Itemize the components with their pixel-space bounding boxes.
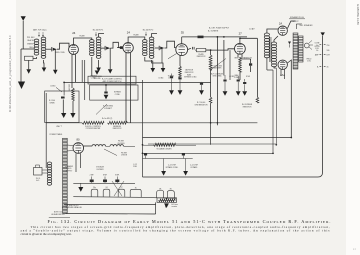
grid cap dot V2 (117, 46, 123, 49)
label F3 (115, 174, 120, 176)
svg-text:1st A.F.: 1st A.F. (249, 28, 255, 31)
label cond row2 (184, 75, 197, 78)
wire choke gap (106, 145, 111, 147)
svg-text:RESISTOR: RESISTOR (197, 56, 206, 58)
label wire colors (27, 39, 34, 49)
resistor R screen (209, 55, 212, 70)
svg-text:24: 24 (72, 31, 76, 35)
capacitor row2 (178, 77, 181, 90)
wire ct down (165, 205, 167, 208)
resistor R2 vertical (72, 88, 75, 101)
tube V4 type 27 (235, 43, 246, 54)
svg-text:BYPASS: BYPASS (191, 166, 199, 169)
pointer vol (96, 104, 107, 115)
label plate lead 1 (79, 35, 85, 38)
capacitor row1 (170, 74, 173, 91)
choke B (110, 145, 124, 147)
svg-text:OHM RESISTOR: OHM RESISTOR (194, 104, 208, 106)
ground T1 box (26, 69, 31, 73)
wire line bus left (46, 122, 82, 124)
wire antenna to T1 (21, 48, 34, 50)
svg-text:GREEN: GREEN (27, 44, 34, 46)
svg-text:No.1 SPEAKER: No.1 SPEAKER (300, 24, 313, 27)
svg-text:GRID BIAS RESISTOR: GRID BIAS RESISTOR (234, 57, 252, 60)
label V3 35 (181, 30, 185, 34)
wire vert 217 (216, 37, 218, 125)
label loop6 (170, 189, 172, 191)
wire B feed vertical (143, 36, 323, 177)
wire screen bus 1 (64, 81, 211, 83)
heater loop 1 (91, 189, 98, 197)
capacitor C1 grid (52, 47, 66, 54)
label loop5 (159, 187, 162, 190)
svg-text:80: 80 (77, 138, 80, 142)
tube V3 detector (176, 44, 188, 56)
tick B2 (315, 50, 330, 56)
label loop2 (106, 187, 108, 189)
caption (21, 219, 331, 236)
svg-text:POWER TRANS.: POWER TRANS. (49, 133, 63, 136)
center tap box (157, 198, 177, 203)
wire shield down (62, 100, 64, 114)
power transformer secondary (63, 138, 68, 213)
svg-text:LINE 'T': LINE 'T' (56, 126, 63, 128)
svg-text:SUPPLY: SUPPLY (66, 170, 73, 172)
label mid block (96, 166, 105, 171)
ground C2 (108, 69, 113, 73)
svg-text:COND.: COND. (115, 94, 121, 96)
svg-text:GRID LEAK: GRID LEAK (212, 75, 222, 78)
svg-text:No.24 R.F.2: No.24 R.F.2 (143, 29, 154, 31)
transformer T3 primary (143, 40, 148, 56)
svg-text:OHMS: OHMS (49, 102, 55, 104)
svg-text:SPEAKER PLUG: SPEAKER PLUG (290, 16, 304, 19)
heater loop 4 (130, 189, 141, 197)
svg-text:CONDENSER: CONDENSER (211, 68, 223, 70)
svg-text:B+: B+ (316, 50, 318, 52)
svg-text:circuit is given in the accomp: circuit is given in the accompanying tex… (21, 232, 72, 236)
resistor on 257 (256, 97, 259, 103)
wire L3 (143, 70, 274, 153)
grid symbols between tubes (288, 42, 291, 48)
svg-text:HUM ADJUSTER: HUM ADJUSTER (51, 213, 65, 216)
wire V3 plate top (181, 37, 183, 44)
label box volume switch (88, 76, 136, 84)
svg-text:COIL SHIELD: COIL SHIELD (92, 76, 103, 78)
wire V3 grid left (168, 54, 177, 59)
wire drop g2 (185, 159, 187, 172)
capacitor row5 (237, 76, 240, 91)
svg-text:24: 24 (127, 30, 131, 34)
svg-text:80: 80 (170, 189, 172, 191)
label tuning box (168, 75, 175, 79)
label bypass (114, 91, 122, 96)
wire rect out (76, 146, 92, 172)
wire vd wires (143, 144, 197, 146)
svg-text:NOTE: R-5: NOTE: R-5 (54, 211, 62, 213)
right margin vertical text (356, 4, 360, 25)
svg-text:A.C.: A.C. (36, 179, 40, 182)
wire T1 pri bottom (33, 57, 37, 59)
wire heater return (64, 202, 156, 214)
wire T2 pri bottom (91, 57, 93, 76)
wire V3 cathode (179, 55, 181, 66)
wire vert 224 (223, 40, 225, 76)
wire ground lead (20, 49, 22, 82)
svg-text:VOLTAGE DIVIDER: VOLTAGE DIVIDER (156, 147, 172, 150)
speaker output coil (293, 33, 298, 69)
label PRI (27, 37, 36, 39)
wire V4 plate top (240, 38, 258, 43)
second box (90, 85, 138, 100)
wire V1 plate top (74, 38, 92, 45)
label divider (113, 126, 122, 130)
wire L2 (148, 68, 276, 144)
tube V5 output (278, 26, 287, 35)
svg-text:CHOKE: CHOKE (121, 155, 128, 157)
ground P2 (183, 171, 188, 176)
wire T4 pri top (267, 29, 278, 70)
arrow B feed (321, 32, 325, 36)
svg-text:COND.: COND. (158, 77, 164, 79)
wire plug to pri (42, 170, 48, 173)
svg-text:2 MF.: 2 MF. (90, 174, 95, 176)
power transformer primary (47, 162, 51, 185)
label V2 24 (127, 30, 131, 34)
wire T2 sec top lead (99, 34, 104, 38)
svg-text:resistor: resistor (172, 205, 178, 208)
svg-text:CONTACT: CONTACT (104, 107, 112, 110)
label loop4 (135, 188, 137, 190)
label loop3 (121, 187, 123, 189)
svg-text:OUTPUT: OUTPUT (292, 21, 299, 23)
svg-text:27: 27 (239, 32, 243, 36)
svg-text:35: 35 (181, 30, 185, 34)
label tuning box 2 (90, 75, 97, 79)
ground main (18, 82, 25, 90)
svg-text:PLATE: PLATE (79, 35, 85, 38)
transformer T3 secondary (149, 37, 154, 58)
label grid leak (234, 57, 252, 60)
ground row4 (223, 91, 228, 96)
label c14 (190, 165, 199, 169)
svg-text:250: 250 (327, 45, 330, 47)
wire V3 plate out (188, 48, 191, 49)
label plate lead 2 (133, 34, 139, 37)
ground row5 (236, 91, 241, 96)
tube V7 rectifier 80 (73, 143, 84, 154)
svg-text:M:\92-Mike\Manuals_web_in_prog: M:\92-Mike\Manuals_web_in_progress\EZ_ba… (8, 35, 12, 112)
label V5 2A (279, 21, 282, 25)
svg-text:POTENTIOMETER: POTENTIOMETER (86, 128, 101, 130)
wire B+ bus top (182, 36, 247, 39)
label note2 (62, 206, 82, 209)
label af stage (249, 28, 255, 31)
wire heater bus (73, 197, 176, 199)
wire to V2 grid (110, 42, 120, 48)
svg-text:45: 45 (327, 67, 329, 69)
ground tuning (53, 70, 58, 74)
wire note underline (49, 216, 70, 218)
label cond pointer (50, 85, 62, 92)
tick B3 (317, 67, 329, 69)
svg-text:ANT. R.F.1 A-C: ANT. R.F.1 A-C (33, 29, 47, 32)
wire C1 to V1 (57, 43, 69, 49)
label ptrans (49, 133, 63, 136)
wire C2 drop (109, 48, 111, 69)
svg-text:180: 180 (327, 50, 330, 52)
wire T1 box down (28, 60, 30, 69)
resistor voltage divider (154, 143, 176, 146)
label loop1 (93, 187, 96, 189)
left margin vertical text (8, 35, 12, 112)
svg-text:35: 35 (135, 188, 137, 190)
label speaker top (289, 16, 305, 19)
svg-text:R-4 to SW (7): R-4 to SW (7) (102, 117, 113, 120)
ground T1 sec (42, 68, 47, 72)
svg-text:BYPASS COND.: BYPASS COND. (184, 75, 197, 78)
ground row3 (199, 90, 204, 95)
wire left edge drop (45, 93, 47, 168)
label cond row (158, 77, 164, 79)
wire L1 (196, 137, 291, 139)
wire bottom bus (66, 213, 156, 216)
label vol conn (103, 106, 114, 110)
svg-text:GRID COND.: GRID COND. (55, 52, 66, 54)
ground coil shield (92, 71, 103, 81)
tick B1 (316, 45, 329, 47)
resistor cathode V3 (179, 66, 182, 78)
label R1 (49, 100, 55, 104)
tube V1 type 24 (69, 45, 79, 55)
transformer T2 secondary (96, 37, 101, 58)
svg-text:RESISTOR: RESISTOR (243, 106, 252, 108)
ground filter (78, 183, 83, 192)
wire T3 sec top lead (152, 34, 157, 38)
label af text bottom (234, 74, 240, 79)
speaker cone (304, 41, 313, 50)
wire vert 257 (256, 38, 258, 97)
svg-text:COND.: COND. (234, 77, 240, 79)
resistor volume control (82, 121, 104, 124)
label screen res (194, 102, 208, 106)
capacitor C2 bypass (101, 46, 110, 50)
capacitor row6 (243, 79, 246, 91)
transformer T1 primary (34, 39, 39, 55)
wire filter bus (73, 182, 135, 184)
label center tap (172, 204, 178, 208)
wire T3 sec bottom (152, 60, 163, 68)
svg-text:COIL: COIL (307, 61, 311, 63)
label F2 (103, 174, 108, 176)
wire vd line (143, 137, 197, 139)
corner mark (353, 249, 356, 251)
svg-text:BLACK: BLACK (27, 39, 33, 42)
label choke (117, 141, 125, 145)
label V1 24 (72, 31, 76, 35)
wire bus 158 (143, 158, 193, 160)
label V4 27 (239, 32, 243, 36)
svg-text:B+ DET. PLATE SUPPLY: B+ DET. PLATE SUPPLY (209, 26, 230, 29)
capacitor bypass mid (104, 85, 107, 94)
svg-text:FIG. 132. CIRCUIT DIAGRAM OF: FIG. 132. CIRCUIT DIAGRAM OF EARLY MODEL… (48, 219, 331, 224)
ground T3 pri (151, 68, 156, 72)
wire T1 sec to C1 (46, 48, 51, 50)
pointer loops (112, 181, 124, 196)
label line T (56, 126, 63, 128)
ground center tap (164, 203, 169, 208)
terminal box T1 (25, 56, 34, 60)
wire web left vertical (142, 80, 144, 177)
capacitor C4 det (193, 47, 195, 50)
choke A (92, 145, 106, 147)
label R4 sw (102, 117, 113, 120)
svg-text:500 OHM: 500 OHM (67, 84, 69, 92)
transformer T2 primary (90, 40, 95, 56)
label c13 (166, 165, 179, 169)
svg-text:CHOKES: CHOKES (117, 143, 125, 145)
transformer T4 primary (264, 33, 271, 62)
svg-text:B+: B+ (316, 45, 318, 47)
ground R2 (70, 113, 75, 118)
label 110v (36, 178, 41, 182)
svg-text:2A: 2A (279, 21, 282, 25)
label T3 (143, 29, 154, 36)
label c12 (133, 164, 138, 168)
svg-text:COND.: COND. (50, 85, 56, 87)
resistor grid leak V4 (239, 58, 242, 81)
label speaker field block (65, 165, 74, 172)
label 257 res (242, 104, 253, 108)
svg-text:PLATE: PLATE (133, 34, 139, 37)
svg-text:24: 24 (106, 187, 108, 189)
label output (292, 21, 299, 23)
ground bypass mid (104, 95, 109, 100)
label choke2 (121, 152, 128, 156)
capacitor C5 (240, 59, 252, 72)
wire V4 legs (238, 54, 242, 58)
label cond row3 (229, 76, 235, 78)
svg-text:8 MF.: 8 MF. (115, 174, 120, 176)
wire tuning cap drop (54, 49, 56, 70)
capacitor row3 (200, 82, 203, 90)
svg-text:B+ SCREEN: B+ SCREEN (208, 30, 219, 32)
wire T1 sec bottom (43, 60, 46, 68)
svg-text:GROUND: GROUND (93, 78, 101, 80)
wire vert 210 (210, 50, 212, 55)
wire vert 210b (209, 70, 212, 145)
label V7 80 (77, 138, 80, 142)
wire choke out (124, 145, 136, 147)
label note3 (51, 211, 65, 216)
svg-text:8 MF.: 8 MF. (103, 174, 108, 176)
wire V1 cathode leg (71, 54, 73, 88)
label detector text (208, 26, 230, 32)
pointer choke (104, 149, 117, 156)
svg-text:8 MF: 8 MF (246, 76, 250, 78)
wire V6 out (281, 60, 291, 138)
label T2 (93, 30, 104, 37)
label volume (85, 126, 101, 130)
label AF coupling (210, 64, 223, 69)
wire det to V4 (206, 49, 235, 80)
tube V6 output (278, 60, 287, 69)
resistor center tap (159, 199, 176, 201)
heater loop 2 (103, 189, 110, 197)
capacitor row4 (223, 75, 226, 91)
capacitor shield blob (61, 82, 65, 98)
wire V2 plate top (128, 37, 145, 43)
wire sec to rect (67, 145, 73, 151)
label AF stage (211, 72, 224, 77)
svg-text:PRI. SEC.: PRI. SEC. (27, 37, 36, 39)
label vdiv (156, 147, 172, 150)
label cond row4 (246, 76, 250, 78)
resistor divider h (108, 121, 128, 124)
wire T4 sec top (274, 36, 278, 68)
transformer T1 secondary (41, 37, 46, 58)
label cathode res (185, 69, 194, 77)
wire T3 pri bottom (145, 57, 153, 68)
svg-text:RESISTOR: RESISTOR (113, 128, 122, 130)
wire speaker top (296, 24, 302, 29)
ground row1 (169, 90, 174, 95)
svg-text:No.24 R.F.1: No.24 R.F.1 (93, 30, 104, 32)
heater loop 6 (167, 191, 174, 199)
label T1 (33, 29, 47, 37)
capacitor F3 (115, 177, 119, 184)
label R2 vert (67, 84, 69, 92)
wire R2 down (72, 101, 74, 113)
pointer AF (210, 59, 226, 71)
wire C3 to V3 (162, 41, 176, 63)
label note1 (66, 205, 79, 207)
wire V1 heater leg (76, 54, 85, 100)
capacitor P1 (144, 153, 147, 158)
label V6 2As (280, 73, 285, 77)
label plate res (197, 53, 206, 58)
wire V5 out (287, 21, 295, 29)
ground T2 sec (96, 68, 101, 72)
wire drop g1 (163, 159, 165, 172)
power plug (34, 165, 43, 175)
svg-text:COND.: COND. (229, 76, 235, 78)
capacitor C3 (155, 46, 165, 50)
wire v1 legs to gnd (71, 81, 74, 84)
label F1 (90, 174, 95, 176)
capacitor F2 (103, 177, 107, 184)
tube V2 type 24 (123, 43, 133, 53)
resistor R plate box (195, 48, 210, 51)
svg-text:24s: 24s (93, 187, 96, 189)
svg-text:ALL HEATERS PARALLEL: ALL HEATERS PARALLEL (62, 206, 82, 209)
wire line bus right (128, 122, 258, 124)
heater loop 3 (118, 189, 125, 197)
wire V2 legs (126, 53, 131, 123)
label cone (314, 42, 320, 50)
wire T2 sec bottom (98, 60, 100, 68)
ground P1 (161, 171, 166, 176)
ground shield (61, 113, 66, 118)
svg-text:DET: DET (327, 55, 330, 57)
ground row6 (242, 91, 247, 96)
capacitor F1 (90, 177, 94, 184)
shield box (45, 91, 79, 123)
label field (307, 58, 313, 62)
transformer T4 secondary (271, 42, 276, 67)
speaker field coil (299, 36, 303, 62)
svg-text:2 MF.: 2 MF. (133, 166, 138, 168)
